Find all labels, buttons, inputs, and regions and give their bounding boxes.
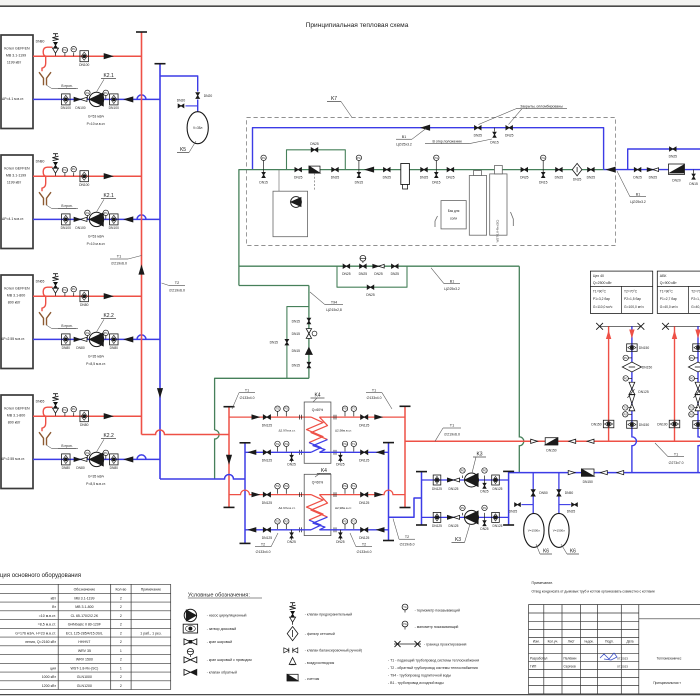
- drain valve DN25 K4-2 left: [287, 530, 296, 544]
- vessel K6-1 V=1500л: [524, 513, 544, 547]
- svg-text:DN25: DN25: [420, 175, 429, 179]
- flow arrow K4-2 return out: [249, 528, 256, 532]
- svg-text:∅219х6.0: ∅219х6.0: [111, 262, 127, 266]
- wire K3 discharge header (blue): [421, 472, 423, 525]
- legend column 2 text: [305, 612, 362, 680]
- svg-text:DN65: DN65: [36, 280, 45, 284]
- svg-text:DN150: DN150: [591, 422, 601, 426]
- wire HX blue header left: [244, 443, 246, 544]
- svg-text:TG: TG: [624, 407, 628, 410]
- manometer PG АБК return 1: [689, 355, 698, 360]
- flow arrow boiler B3 supply: [104, 294, 112, 299]
- svg-text:МВ 3.1-800: МВ 3.1-800: [7, 294, 26, 298]
- wire Цех 40 supply riser (red): [608, 326, 610, 441]
- svg-text:DN80: DN80: [36, 160, 45, 164]
- svg-text:DN100: DN100: [75, 226, 85, 230]
- valve DN15 T94-1: [292, 318, 311, 324]
- spec table grid: [0, 584, 171, 689]
- svg-text:соли: соли: [450, 217, 457, 221]
- label pump K2.2 flow: [86, 474, 106, 486]
- legend balance valve icon: [284, 648, 298, 653]
- wire boiler B3 return (blue): [33, 335, 160, 340]
- svg-text:P=10 м.в.ст.: P=10 м.в.ст.: [87, 242, 106, 246]
- svg-text:Бак для: Бак для: [448, 209, 460, 213]
- svg-text:2: 2: [120, 684, 122, 688]
- control valve DN125 Цех 40: [627, 382, 648, 411]
- svg-text:Изм.: Изм.: [533, 639, 540, 643]
- filter cartridge K7: [401, 164, 410, 190]
- svg-text:2: 2: [120, 675, 122, 679]
- svg-text:ΔР=4.1 м.в.ст.: ΔР=4.1 м.в.ст.: [2, 97, 24, 101]
- valve DN25 K6-1 drain: [509, 503, 521, 514]
- svg-text:PG: PG: [72, 48, 76, 51]
- svg-text:Кол-во: Кол-во: [115, 587, 126, 591]
- legend PG icon: [402, 621, 458, 629]
- consumer block АБК: [657, 271, 700, 313]
- legend check valve icon: [184, 669, 197, 675]
- svg-text:1 раб., 1 рез.: 1 раб., 1 рез.: [140, 631, 161, 635]
- manometer PG pump K2.1 suction: [85, 90, 90, 99]
- wire K3 pump row (blue): [422, 479, 509, 481]
- svg-text:PG: PG: [284, 408, 288, 411]
- flow arrow boiler B1 return: [125, 97, 133, 102]
- valve DN25 K7-2: [331, 168, 340, 180]
- title block project name: [657, 657, 682, 661]
- butterfly valve DN150 Цех 40 return top: [627, 344, 650, 352]
- svg-text:ция основного оборудования: ция основного оборудования: [0, 573, 81, 579]
- svg-text:PG: PG: [483, 507, 487, 510]
- wire K4-2 secondary supply right (red): [319, 490, 405, 495]
- wire T2 main from consumers (blue): [509, 472, 700, 474]
- svg-text:МВ 3.1-1199: МВ 3.1-1199: [6, 54, 26, 58]
- valve DN20 expansion drain: [177, 99, 186, 108]
- svg-text:DN25: DN25: [310, 142, 319, 146]
- svg-text:DN25: DN25: [555, 175, 564, 179]
- svg-text:Котел GEFFEN: Котел GEFFEN: [4, 47, 30, 51]
- svg-text:G=53 м3/ч: G=53 м3/ч: [88, 114, 104, 118]
- pump K2.1 boiler B1: [89, 92, 103, 106]
- gauges PG TG K4-1 supply out: [342, 406, 356, 416]
- svg-text:- фильтр сетчатый: - фильтр сетчатый: [305, 632, 335, 636]
- svg-text:DN100: DN100: [657, 422, 667, 426]
- svg-text:G=40,0 м³/ч: G=40,0 м³/ч: [660, 305, 678, 309]
- label T2 link: [393, 519, 415, 547]
- svg-text:TG: TG: [352, 485, 356, 488]
- svg-text:P1=3,2 бар: P1=3,2 бар: [593, 297, 610, 301]
- cap HX red header top: [224, 406, 235, 408]
- drain valve DN25 K4-1 right: [336, 452, 345, 466]
- butterfly valve DN150 Цех 40 supply: [591, 420, 614, 428]
- flow arrow T2 main 3: [617, 470, 624, 474]
- label K6-1: [536, 544, 552, 555]
- svg-text:PG: PG: [104, 452, 108, 455]
- svg-text:МВ 3.1-1199: МВ 3.1-1199: [74, 596, 94, 600]
- svg-text:Ц∅25х3.2: Ц∅25х3.2: [630, 200, 646, 204]
- svg-text:В1: В1: [450, 280, 454, 284]
- svg-text:DN25: DN25: [446, 175, 455, 179]
- svg-text:В1: В1: [636, 193, 640, 197]
- label K4-2: [315, 468, 331, 477]
- title block grid: [529, 605, 700, 694]
- valve DN15 between sealed valves: [490, 128, 499, 145]
- svg-text:DN25: DN25: [342, 272, 351, 276]
- svg-text:DN100: DN100: [61, 106, 71, 110]
- svg-text:В проп.: В проп.: [61, 84, 72, 88]
- label T1 main right: [655, 443, 684, 465]
- svg-text:PG: PG: [343, 443, 347, 446]
- thermometer TG boiler B4 supply: [62, 407, 67, 416]
- svg-text:- Т1 - подающий трубопровод: - Т1 - подающий трубопровод системы тепл…: [388, 658, 479, 662]
- valve DN25 K7-3: [383, 168, 392, 180]
- svg-text:Ц∅15х2,8: Ц∅15х2,8: [326, 308, 342, 312]
- valve DN25 feed bypass: [366, 285, 375, 297]
- svg-text:DN25: DN25: [520, 175, 529, 179]
- svg-text:DN80: DN80: [76, 346, 85, 350]
- svg-text:=8,5 м.в.ст.: =8,5 м.в.ст.: [38, 623, 56, 627]
- flow arrow T1 main 3: [587, 439, 594, 443]
- wire K4-2 secondary return right (blue): [319, 529, 388, 531]
- wire boiler B1 return (blue): [33, 95, 160, 99]
- svg-text:АБК: АБК: [660, 274, 668, 278]
- wire K6 branch 2 (blue): [558, 473, 560, 514]
- svg-text:T1=90°C: T1=90°C: [660, 290, 674, 294]
- heat exchanger K4-2: [304, 474, 331, 535]
- flow arrow B1 exit: [607, 167, 615, 172]
- svg-text:K7: K7: [331, 96, 337, 102]
- svg-text:- счетчик: - счетчик: [305, 677, 320, 681]
- svg-text:кВт: кВт: [51, 596, 57, 600]
- label B1 pipe right: [617, 171, 646, 204]
- svg-text:DN25: DN25: [383, 175, 392, 179]
- cap K3 discharge header bottom: [416, 524, 427, 526]
- valve DN125 K4-1 supply out: [359, 415, 369, 428]
- svg-text:G=40,0 м³/ч: G=40,0 м³/ч: [691, 305, 700, 309]
- spec table title: [0, 573, 81, 579]
- svg-text:Т2: Т2: [175, 281, 179, 285]
- svg-text:Пелёвин: Пелёвин: [564, 657, 577, 661]
- valve DN15 T94-2: [292, 362, 311, 368]
- legend ball valve icon: [184, 639, 197, 645]
- svg-text:DN100: DN100: [61, 226, 71, 230]
- svg-text:G=100,0 м³/ч: G=100,0 м³/ч: [624, 305, 644, 309]
- svg-text:1: 1: [120, 649, 122, 653]
- valve DN25 B1 upper branch: [669, 147, 678, 159]
- wire boiler B1 supply (red): [33, 47, 142, 71]
- valve DN25 K7 bypass: [310, 142, 319, 152]
- wire K4-1 primary supply left (red): [229, 416, 311, 418]
- label K3 upper: [472, 452, 486, 474]
- manometer PG K7 softener inlet: [432, 155, 441, 184]
- boiler B3 GEFFEN МВ 3.1-800: [1, 275, 33, 369]
- svg-text:Разработал: Разработал: [530, 657, 547, 661]
- gauge TG АБК return: [689, 405, 698, 410]
- wire B1 feed drop (green): [519, 266, 524, 472]
- svg-text:Условные обозначения:: Условные обозначения:: [188, 592, 250, 598]
- svg-text:DN25: DN25: [649, 175, 658, 179]
- svg-text:800 кВт: 800 кВт: [8, 421, 21, 425]
- flow arrow Цех 40 supply riser: [606, 331, 610, 338]
- valve DN125 K4-2 return in: [359, 528, 369, 541]
- wire T1 red riser: [141, 32, 143, 435]
- cap K3 suction header top: [503, 470, 514, 472]
- svg-text:В проп.: В проп.: [61, 204, 72, 208]
- svg-text:Δ2,98м.в.ст.: Δ2,98м.в.ст.: [335, 428, 352, 432]
- wire boiler B2 return (blue): [33, 215, 160, 220]
- svg-text:PG: PG: [343, 485, 347, 488]
- label pump K2.2: [97, 313, 117, 332]
- svg-text:Дата: Дата: [626, 639, 633, 643]
- cap HX blue header left bottom: [240, 542, 251, 544]
- cap K3 discharge header top: [416, 471, 427, 473]
- wire green main to riser: [239, 170, 247, 286]
- label pump K2.1 flow: [87, 234, 106, 246]
- svg-text:PG: PG: [461, 470, 465, 473]
- svg-text:DN15: DN15: [259, 181, 268, 185]
- spec table rows: [15, 596, 161, 688]
- svg-text:Примечание: Примечание: [141, 587, 161, 591]
- svg-text:TG: TG: [276, 408, 280, 411]
- manometer PG K3 suction: [460, 505, 465, 515]
- svg-text:№док.: №док.: [584, 639, 593, 643]
- gauges PG TG K4-2 supply out: [342, 484, 356, 494]
- svg-text:Подп.: Подп.: [605, 639, 614, 643]
- svg-text:K2.2: K2.2: [103, 433, 114, 439]
- svg-text:В проп.: В проп.: [61, 444, 72, 448]
- flow arrow K4-1 supply in: [252, 415, 259, 419]
- svg-text:DN25: DN25: [391, 272, 400, 276]
- wire boiler B4 supply (red): [33, 407, 142, 431]
- wire T2 link to K3 (blue): [389, 498, 422, 517]
- svg-text:DN15: DN15: [689, 182, 698, 186]
- butterfly valve DN100 boiler B1 return outlet: [109, 94, 119, 110]
- legend motor ball valve icon: [184, 649, 197, 663]
- check valve DN125 K3: [447, 478, 459, 491]
- svg-text:DN25: DN25: [573, 178, 582, 182]
- title block row Разработал: [530, 657, 628, 661]
- flow arrow K4-2 supply in: [252, 492, 259, 496]
- flow meter DN100 АБК: [688, 362, 700, 372]
- svg-text:Δ2.97м.в.ст.: Δ2.97м.в.ст.: [278, 428, 295, 432]
- svg-text:TG: TG: [63, 409, 67, 412]
- svg-text:DN20: DN20: [204, 94, 213, 98]
- svg-text:TG: TG: [63, 169, 67, 172]
- solenoid valve DN15 T94: [292, 329, 317, 339]
- svg-text:Сергеев: Сергеев: [564, 665, 576, 669]
- svg-text:TG: TG: [690, 407, 694, 410]
- cap HX red riser right bottom: [400, 507, 411, 509]
- manometer PG pump K2.1 suction: [85, 210, 90, 219]
- manometer PG boiler B2 supply: [71, 167, 76, 177]
- flow arrow АБК return riser: [696, 330, 700, 337]
- svg-text:∅219х6.0: ∅219х6.0: [399, 543, 414, 547]
- svg-text:PG: PG: [403, 623, 407, 626]
- svg-text:1200 кВт: 1200 кВт: [42, 684, 57, 688]
- svg-text:PG: PG: [104, 332, 108, 335]
- svg-text:Принципиальная тепловая схема: Принципиальная тепловая схема: [306, 22, 409, 29]
- wire boiler B3 supply (red): [33, 287, 142, 311]
- svg-text:DN25: DN25: [509, 510, 518, 514]
- gauges TG PG K4-2 return: [275, 519, 289, 529]
- svg-text:DN25: DN25: [287, 540, 296, 544]
- label dP right K4-1: [335, 428, 352, 432]
- svg-text:- термометр показывающий: - термометр показывающий: [415, 609, 460, 613]
- svg-text:2: 2: [120, 658, 122, 662]
- water meter K7: [309, 166, 320, 191]
- svg-text:P2=1,4 бар: P2=1,4 бар: [691, 297, 700, 301]
- valve DN25 K7-1: [294, 168, 303, 180]
- valve DN125 K4-1 return out: [262, 450, 272, 463]
- svg-text:WST-1.8-Rx-(SC): WST-1.8-Rx-(SC): [495, 220, 499, 243]
- wire water treatment main (green): [247, 169, 604, 171]
- manometer PG Цех 40 return 2: [623, 376, 632, 381]
- wire K4-1 secondary supply right (red): [319, 416, 405, 418]
- check valve DN100 boiler B1 return: [74, 97, 87, 110]
- svg-text:DN125: DN125: [359, 501, 369, 505]
- salt tank K7: [435, 201, 466, 229]
- svg-text:МВ 3.1-800: МВ 3.1-800: [7, 414, 26, 418]
- drain funnel boiler B3: [39, 312, 78, 329]
- svg-text:DN25: DN25: [374, 272, 383, 276]
- svg-text:∅219х6.0: ∅219х6.0: [444, 433, 460, 437]
- butterfly valve DN100 boiler B2 supply: [79, 171, 89, 187]
- manometer PG K3 discharge: [482, 505, 487, 517]
- svg-text:DN50: DN50: [565, 491, 574, 495]
- svg-text:TG: TG: [403, 606, 407, 609]
- svg-text:DN125: DN125: [262, 536, 272, 540]
- wire boiler B2 supply (red): [33, 167, 142, 191]
- svg-text:1: 1: [120, 666, 122, 670]
- manometer PG boiler B3 supply: [71, 287, 76, 297]
- svg-text:PG: PG: [343, 408, 347, 411]
- label K5: [177, 141, 196, 153]
- label T2 K4 right: [350, 533, 372, 554]
- drain DN25 K3: [480, 517, 488, 531]
- flow arrow Цех 40 return riser: [630, 330, 634, 337]
- svg-text:Ц∅25х3.2: Ц∅25х3.2: [396, 143, 412, 147]
- svg-text:K2.2: K2.2: [103, 313, 114, 319]
- flow arrow boiler B2 return: [125, 217, 133, 222]
- thermometer TG boiler B3 supply: [62, 287, 67, 296]
- svg-text:DN100: DN100: [109, 106, 119, 110]
- svg-text:WRV 35: WRV 35: [78, 649, 91, 653]
- valve DN25 K6-2 drain: [567, 503, 578, 514]
- svg-text:Вт: Вт: [52, 605, 56, 609]
- safety valve DN65 boiler B3: [36, 274, 59, 296]
- valve DN25 B1 main: [633, 168, 642, 180]
- svg-text:T2=70°C: T2=70°C: [624, 290, 638, 294]
- dosing pump K7: [273, 170, 308, 237]
- label B1 feed: [431, 268, 460, 291]
- drain funnel boiler B2: [39, 192, 78, 209]
- svg-text:∅133х4.0: ∅133х4.0: [255, 550, 270, 554]
- svg-text:DN15: DN15: [292, 363, 301, 367]
- flow arrow T2 main: [568, 470, 575, 474]
- svg-text:Принципиальная т: Принципиальная т: [653, 681, 681, 685]
- flow arrow T2 riser: [157, 389, 162, 397]
- boiler B1 GEFFEN МВ 3.1-1199: [1, 35, 33, 129]
- svg-text:- кран шаровый с приводом: - кран шаровый с приводом: [207, 658, 253, 662]
- wire boiler B4 return (blue): [33, 455, 160, 460]
- flow arrow K7 main: [365, 167, 373, 172]
- gauge PG Цех 40 return 3: [623, 412, 632, 417]
- manometer PG K7 inlet: [259, 155, 268, 184]
- wire T94 to T2 (green): [215, 430, 220, 479]
- gauges TG PG K4-1 return: [275, 441, 289, 451]
- svg-text:Q=60%: Q=60%: [312, 408, 323, 412]
- svg-text:PG: PG: [72, 288, 76, 291]
- butterfly valve DN80 boiler B3 supply: [80, 291, 89, 307]
- svg-text:PG: PG: [461, 507, 465, 510]
- svg-text:DN125: DN125: [449, 524, 459, 528]
- label pump K2.1 flow: [87, 114, 106, 126]
- svg-text:DN150: DN150: [639, 346, 649, 350]
- svg-text:PG: PG: [690, 413, 694, 416]
- svg-text:DN80: DN80: [76, 466, 85, 470]
- svg-text:Цех 40: Цех 40: [593, 274, 604, 278]
- svg-text:DN125: DN125: [638, 390, 648, 394]
- svg-text:07.2023: 07.2023: [617, 657, 628, 661]
- manometer PG K3 suction: [460, 468, 465, 478]
- svg-text:DN25: DN25: [480, 490, 488, 494]
- svg-text:TG: TG: [63, 49, 67, 52]
- butterfly valve DN80 boiler B4 return inlet: [62, 454, 71, 470]
- air vent T94: [292, 348, 313, 355]
- valve DN50 K6-2: [557, 490, 573, 496]
- gauge TG Цех 40 return: [623, 405, 632, 410]
- label pump K2.2 flow: [86, 354, 106, 366]
- svg-text:T2=70°C: T2=70°C: [691, 290, 700, 294]
- svg-text:V=1500л: V=1500л: [528, 529, 540, 533]
- svg-text:DN25: DN25: [287, 463, 296, 467]
- svg-text:DN125: DN125: [359, 536, 369, 540]
- svg-text:TG: TG: [276, 485, 280, 488]
- svg-text:DN150: DN150: [639, 423, 649, 427]
- valve DN15 T94 branch: [270, 339, 289, 345]
- bypass loop K7 (green): [287, 150, 346, 170]
- legend column 1 text: [207, 614, 253, 675]
- svg-text:P=10 м.в.ст.: P=10 м.в.ст.: [87, 122, 106, 126]
- svg-text:Δ2,98м.в.ст.: Δ2,98м.в.ст.: [335, 506, 352, 510]
- legend filter icon: [287, 627, 298, 641]
- drain funnel boiler B4: [39, 432, 78, 449]
- svg-text:DN125: DN125: [262, 459, 272, 463]
- valve DN25 K7-6: [520, 168, 529, 180]
- butterfly valve DN100 boiler B2 return inlet: [61, 214, 71, 230]
- label K6-2: [561, 544, 579, 555]
- svg-text:K6: K6: [543, 549, 549, 555]
- thermometer TG boiler B1 supply: [62, 47, 67, 56]
- svg-text:НННЧ7: НННЧ7: [78, 640, 90, 644]
- flow arrow boiler B1 supply: [104, 54, 112, 59]
- valve DN25 K7-8: [587, 168, 596, 180]
- butterfly valve DN80 boiler B3 return inlet: [62, 334, 71, 350]
- spec table header: [74, 587, 162, 591]
- svg-text:В1: В1: [402, 135, 406, 139]
- svg-text:GLN1000: GLN1000: [77, 675, 92, 679]
- flow arrow boiler B4 supply: [104, 414, 112, 419]
- flowmeter DN25 K7: [572, 163, 582, 181]
- svg-text:1000 кВт: 1000 кВт: [42, 675, 57, 679]
- wire HX blue riser right: [388, 443, 390, 541]
- water treatment unit K7 dashed boundary: [247, 118, 616, 246]
- flow arrow T1 main 2: [569, 439, 576, 443]
- title block sheet name: [653, 681, 681, 685]
- svg-text:DN50: DN50: [539, 491, 548, 495]
- svg-text:ΔР=2.55 м.в.ст.: ΔР=2.55 м.в.ст.: [1, 457, 25, 461]
- title block signature: [600, 653, 617, 660]
- valve DN25 feed 2: [391, 264, 400, 276]
- flow arrow boiler B4 return: [125, 457, 133, 462]
